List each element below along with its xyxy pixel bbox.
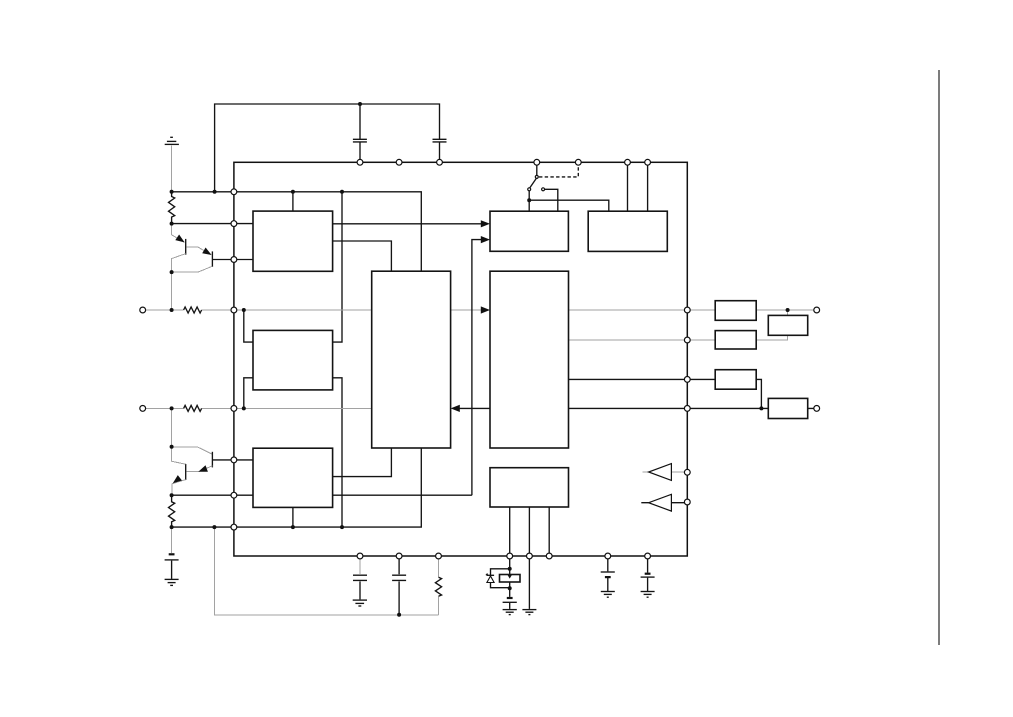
transistor Q3 bar (211, 452, 213, 468)
block U2 (253, 330, 333, 390)
block U5 (490, 271, 569, 448)
transistor Q4 collector (172, 447, 186, 464)
terminal OUT2 (814, 406, 820, 412)
pin right 6 (687.3,502.0) (684, 499, 690, 505)
wire vertical x342 upper to U2 (333, 192, 342, 342)
junction (787.6,310) (786, 308, 790, 312)
pin bottom 6 (549.2,556) (546, 553, 552, 559)
capacitor C4 below crystal (509, 588, 511, 597)
pin top 2 (399.1,162.3) (396, 159, 402, 165)
pin left 1 (233.9,191.8) (231, 189, 237, 195)
buffer A1 (649, 464, 672, 481)
arrow into U6 upper (481, 220, 490, 227)
transistor Q1 bar (185, 239, 187, 255)
switch S1 dashed link (539, 165, 578, 177)
pin bottom 7 (607.8,556) (605, 553, 611, 559)
pin bottom 4 (509.7,556) (507, 553, 513, 559)
wire stub U3 bottom (292, 507, 294, 527)
wire y200 to U7 top (529, 200, 609, 211)
junction (171.6,527.1) (170, 525, 174, 529)
junction (171.6,408.4) (170, 406, 174, 410)
junction (171.6,446.8) (170, 445, 174, 449)
box B (768, 315, 807, 335)
pin left 8 (233.9,527.1) (231, 524, 237, 530)
wire top pins to U7 (628, 162, 648, 211)
pin left 4 (233.9,310) (231, 307, 237, 313)
switch S1 contact A (528, 188, 531, 191)
crystal X1 body (500, 575, 521, 583)
page border line right (938, 70, 940, 645)
wire buffer A1 leads (642, 471, 684, 473)
wire Q3 base y460 (213, 459, 253, 461)
junction (342,527.1) (340, 525, 344, 529)
terminal IN2 (140, 406, 146, 412)
junction (214.4,527.1) (212, 525, 216, 529)
diode D1 (487, 574, 494, 576)
box E (768, 398, 807, 418)
crystal X1 side loop (491, 569, 510, 588)
block U6 (490, 211, 568, 251)
transistor Q3 arrow (198, 465, 208, 472)
buffer A2 (649, 494, 672, 511)
IC outline U0 (234, 162, 687, 556)
switch S1 pole wire (536, 162, 538, 175)
terminal IN1 (140, 307, 146, 313)
capacitor C8 at 399 bottom (398, 556, 400, 615)
block U3 (253, 448, 333, 507)
wire buffer A2 leads (641, 502, 687, 504)
ground under C4 (503, 609, 517, 611)
wire U1 right stub to U4 top (333, 241, 392, 271)
wire net y495 (172, 494, 472, 496)
pin right 4 (687.3,408.4) (684, 406, 690, 412)
terminal OUT1 (814, 307, 820, 313)
box D (715, 370, 756, 390)
wire stub to U1 top (292, 192, 294, 211)
wire pin GND 529 (528, 556, 530, 609)
resistor R5 at 438 bottom (438, 556, 440, 615)
transistor Q2 collector (172, 266, 213, 272)
junction (171.6,272.1) (170, 270, 174, 274)
pin right 3 (687.3,379.4) (684, 377, 690, 383)
capacitor C6 at 647 (647, 556, 649, 591)
pin bottom 3 (438.5,556) (436, 553, 442, 559)
junction (360,104) (358, 102, 362, 106)
resistor R4 (184, 405, 202, 411)
capacitor C5 at 607 (607, 556, 609, 591)
resistor R2 (169, 495, 175, 527)
switch S1 lever (530, 178, 537, 188)
pin top 6 (627.5,162.3) (625, 159, 631, 165)
junction (761.4,408.4) (759, 406, 763, 410)
pin top 1 (360,162.3) (357, 159, 363, 165)
wire U8 bottom leads (510, 507, 550, 556)
transistor Q1 base to Q2 emitter (186, 247, 210, 255)
pin left 6 (233.9,459.9) (231, 457, 237, 463)
pin bottom 5 (529.4,556) (527, 553, 533, 559)
pin bottom 1 (360,556) (357, 553, 363, 559)
wire x171 to lower pair (171, 408, 173, 446)
ground top-left (170, 136, 173, 138)
pin bottom 2 (399.1,556) (396, 553, 402, 559)
wire x472 feedback up (472, 240, 482, 496)
switch S1 pivot (535, 175, 538, 178)
junction (171.6,495.2) (170, 493, 174, 497)
arrow into U6 lower (481, 236, 490, 243)
wire gray return bottom (214, 527, 438, 615)
crystal X1 arrow (508, 575, 512, 579)
resistor R3 (184, 307, 202, 313)
block U1 (253, 211, 333, 271)
block U4 (372, 271, 451, 448)
input terminal IN2 wire (146, 407, 372, 409)
junction (171.6,310) (170, 308, 174, 312)
switch S1 contact B (542, 188, 545, 191)
transistor Q1 arrow (175, 235, 184, 243)
block U7 (588, 211, 667, 251)
pin top 7 (647.6,162.3) (645, 159, 651, 165)
wire stub pin5 to U2 (244, 378, 253, 409)
ground under C7 (353, 599, 367, 601)
wire output y340 right (569, 335, 788, 340)
junction (214.6,191.8) (213, 190, 217, 194)
junction (292.9,527.1) (291, 525, 295, 529)
ground under C6 (641, 591, 655, 593)
input terminal IN1 wire (146, 309, 481, 311)
wire switch contact A down (528, 191, 530, 211)
pin left 2 (233.9,223.6) (231, 221, 237, 227)
capacitor C7 at 360 bottom (359, 556, 361, 574)
junction (342,191.8) (340, 190, 344, 194)
wire output y379 right (569, 379, 762, 408)
transistor Q3 emitter to Q4 base (187, 466, 213, 472)
wire net y527 (172, 448, 422, 527)
box C (715, 331, 756, 349)
pin top 4 (536.8,162.3) (534, 159, 540, 165)
junction (509.7,568.8) (508, 567, 512, 571)
ground bottom-left (165, 578, 179, 580)
wire stub pin4 to U2 (244, 310, 253, 342)
capacitor C2 plates (433, 139, 447, 142)
box A (715, 301, 756, 321)
junction (509.7,588.2) (508, 586, 512, 590)
wire U3 to U4 bottom link (333, 448, 392, 476)
transistor Q4 bar (185, 464, 187, 480)
pin left 7 (233.9,495.2) (231, 492, 237, 498)
resistor R1 (169, 192, 175, 224)
pin top 5 (578.3,162.3) (575, 159, 581, 165)
capacitor C3 bottom-left to ground (171, 527, 173, 553)
wire net y191 (172, 192, 422, 271)
transistor Q4 arrow (173, 475, 182, 483)
pin right 1 (687.3,310) (684, 307, 690, 313)
transistor Q3 collector (172, 447, 212, 454)
transistor Q2 arrow (202, 248, 211, 256)
wire y408 with left arrow to U4 (459, 407, 813, 409)
junction (243.8,408.4) (242, 406, 246, 410)
pin right 2 (687.3,340) (684, 337, 690, 343)
pin left 5 (233.9,408.4) (231, 406, 237, 412)
arrow into U4 right (451, 405, 460, 412)
wire vertical x342 lower to U2 (333, 378, 342, 527)
wire switch contact B to U6 top (545, 189, 558, 211)
wire pin3 line y259 (213, 259, 253, 261)
junction (529.2,200.2) (527, 198, 531, 202)
block U8 (490, 468, 569, 507)
pin left 3 (233.9,259.5) (231, 257, 237, 263)
junction (292.9,191.8) (291, 190, 295, 194)
junction (399.1,614.8) (397, 613, 401, 617)
pin top 3 (439.5,162.3) (437, 159, 443, 165)
ground at 529 (522, 609, 536, 611)
capacitor C1 plates (353, 139, 367, 142)
junction (243.8,310) (242, 308, 246, 312)
transistor Q1 collector (172, 254, 186, 310)
wire Vcc top rail (215, 104, 440, 192)
pin bottom 8 (647.6,556) (645, 553, 651, 559)
transistor Q4 emitter (172, 480, 186, 496)
crystal X1 main lead (509, 556, 511, 588)
pin right 5 (687.3,472.3) (684, 469, 690, 475)
junction (171.6,223.6) (170, 222, 174, 226)
transistor Q2 bar (211, 251, 213, 267)
wire output y310 right (569, 310, 814, 315)
junction (171.6,191.8) (170, 190, 174, 194)
wire ground stem top-left (171, 145, 173, 192)
ground under C5 (601, 591, 615, 593)
wire pin2 line y224 (172, 223, 253, 225)
wire U1 right stub to U6 arrow (333, 223, 482, 225)
transistor Q1 emitter (172, 224, 185, 243)
arrow into U5 (481, 306, 490, 313)
